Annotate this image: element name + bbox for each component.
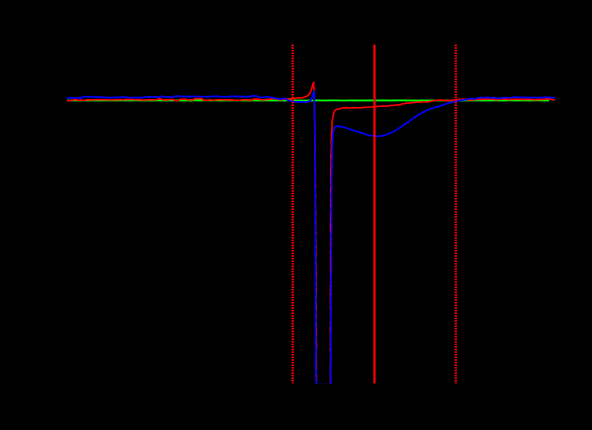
blue curve right branch: [330, 97, 555, 390]
red curve left branch: [67, 83, 317, 391]
vline solid center x=374.45: [373, 45, 375, 384]
green hline: [67, 99, 549, 101]
vline dotted right x=455.7: [455, 45, 457, 384]
vline dotted left x=292.7: [292, 45, 294, 384]
blue bottom connector faint: [316, 383, 330, 385]
red curve right branch: [330, 99, 555, 390]
blue curve left branch: [67, 91, 317, 390]
